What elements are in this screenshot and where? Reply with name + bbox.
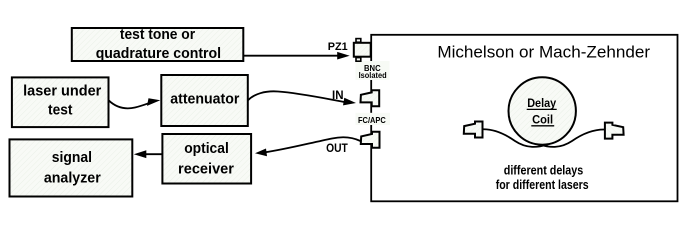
BNC top pin xyxy=(356,39,361,43)
svg-text:Delay: Delay xyxy=(527,96,556,110)
wire: OUT to optical receiver xyxy=(265,137,361,152)
wire: attenuator to IN xyxy=(248,91,346,102)
OUT fiber plug on box edge xyxy=(361,132,380,148)
svg-text:analyzer: analyzer xyxy=(44,170,101,187)
svg-text:Michelson or Mach-Zehnder: Michelson or Mach-Zehnder xyxy=(437,43,650,62)
delay coil circle xyxy=(509,77,576,144)
fiber from right inner plug under delay coil xyxy=(529,129,606,146)
svg-text:OUT: OUT xyxy=(326,141,348,155)
box: attenuator xyxy=(161,75,248,126)
svg-text:Isolated: Isolated xyxy=(359,70,387,80)
svg-text:for different lasers: for different lasers xyxy=(496,177,589,192)
svg-text:quadrature control: quadrature control xyxy=(96,45,221,62)
svg-text:test: test xyxy=(48,101,72,118)
fiber from left inner plug under delay coil xyxy=(483,129,559,147)
svg-text:FC/APC: FC/APC xyxy=(358,115,386,125)
box: test tone or quadrature control xyxy=(72,28,244,61)
BNC connector on box edge xyxy=(354,43,371,57)
svg-text:signal: signal xyxy=(52,149,92,166)
wire: test tone to PZ1 xyxy=(244,55,340,57)
svg-text:test tone or: test tone or xyxy=(120,26,195,43)
interferometer enclosure box xyxy=(371,35,677,202)
box: optical receiver xyxy=(162,134,251,184)
BNC bottom pin xyxy=(356,58,361,62)
svg-text:different delays: different delays xyxy=(504,163,584,178)
svg-text:attenuator: attenuator xyxy=(170,90,239,107)
wire: laser under test to attenuator xyxy=(109,100,157,108)
svg-text:optical: optical xyxy=(184,140,229,157)
svg-text:IN: IN xyxy=(332,88,344,102)
wire: optical receiver to signal analyzer xyxy=(145,153,162,155)
svg-text:PZ1: PZ1 xyxy=(328,41,348,53)
box: signal analyzer xyxy=(10,139,133,196)
svg-text:Coil: Coil xyxy=(532,112,553,126)
label patch FC/APC xyxy=(356,113,391,125)
svg-text:receiver: receiver xyxy=(178,161,234,178)
svg-text:laser under: laser under xyxy=(23,82,101,99)
inner left fiber plug xyxy=(464,122,483,138)
IN fiber plug on box edge xyxy=(361,90,380,106)
box: laser under test xyxy=(12,77,109,127)
inner right fiber plug xyxy=(605,123,624,139)
label patch BNC Isolated xyxy=(356,61,390,80)
